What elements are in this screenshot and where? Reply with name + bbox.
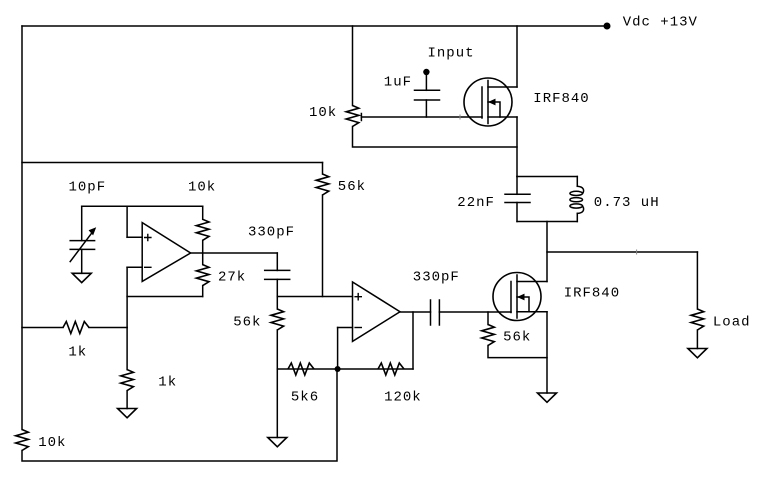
svg-text:10k: 10k <box>188 180 216 196</box>
svg-text:120k: 120k <box>384 390 422 406</box>
svg-text:56k: 56k <box>503 329 531 345</box>
svg-text:22nF: 22nF <box>457 195 495 211</box>
svg-text:1k: 1k <box>158 375 177 391</box>
svg-text:330pF: 330pF <box>413 269 460 285</box>
svg-text:1k: 1k <box>68 345 87 361</box>
svg-text:Vdc +13V: Vdc +13V <box>623 15 698 31</box>
svg-text:0.73 uH: 0.73 uH <box>594 195 660 211</box>
svg-text:27k: 27k <box>218 270 246 286</box>
svg-text:IRF840: IRF840 <box>564 286 620 302</box>
svg-text:10k: 10k <box>38 435 66 451</box>
svg-text:5k6: 5k6 <box>291 390 319 406</box>
svg-text:56k: 56k <box>233 315 261 331</box>
svg-text:10k: 10k <box>309 105 337 121</box>
svg-text:IRF840: IRF840 <box>533 91 589 107</box>
svg-text:1uF: 1uF <box>384 75 412 91</box>
svg-text:10pF: 10pF <box>69 180 107 196</box>
svg-text:56k: 56k <box>338 179 366 195</box>
svg-text:Input: Input <box>428 45 475 61</box>
svg-text:Load: Load <box>713 315 751 331</box>
svg-text:330pF: 330pF <box>248 224 295 240</box>
